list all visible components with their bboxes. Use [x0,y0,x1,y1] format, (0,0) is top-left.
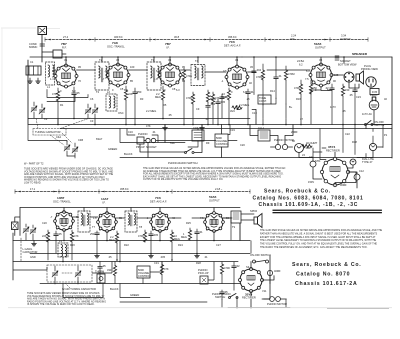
svg-text:C20: C20 [240,143,245,147]
svg-text:C4B: C4B [78,138,83,142]
svg-text:R22: R22 [124,243,129,247]
wire phono drop [140,143,185,158]
capacitor C8 [246,89,254,125]
svg-text:SOCKET: SOCKET [340,59,351,63]
resistor R9 [309,80,317,124]
svg-text:CONT.: CONT. [259,99,267,103]
wire right rail [391,57,393,158]
phono-radio switch S2 [168,149,198,166]
speaker 2 [254,214,262,228]
svg-text:47K: 47K [215,96,220,100]
on-off switch S1 [365,120,385,127]
trimmer capacitor C21 [30,225,36,240]
junction dots [57,56,356,125]
svg-text:SPEAKER: SPEAKER [352,52,368,56]
svg-text:460 KC: 460 KC [114,35,123,39]
svg-text:7A8: 7A8 [112,41,118,45]
speaker socket bottom view [338,59,357,82]
svg-text:C22: C22 [345,132,350,136]
capacitor C22 [54,231,62,240]
svg-text:47K: 47K [146,124,151,128]
svg-text:PHONO-RADIO SWITCH: PHONO-RADIO SWITCH [168,161,198,165]
capacitor C32 [98,262,106,284]
antenna terminal [38,27,47,35]
volume control R26 [137,266,151,278]
trimmer capacitor C3 [39,104,45,118]
svg-text:V3: V3 [168,58,172,62]
capacitor C24 [149,231,159,240]
svg-text:V11: V11 [262,289,267,293]
svg-text:470K: 470K [186,74,192,78]
svg-text:455 KC: 455 KC [120,187,129,191]
ground (strip) [36,78,41,83]
svg-text:TYPE 47: TYPE 47 [362,160,373,164]
resistor R22 [109,231,119,260]
resistor R3 [155,86,165,119]
capacitor C6 [206,102,216,124]
svg-text:6.3: 6.3 [243,90,247,94]
tube V7 14B7 [54,211,75,232]
tuning capacitor label [33,118,90,135]
svg-text:Sears, Roebuck & Co.: Sears, Roebuck & Co. [292,262,362,268]
gang trimmer C17 [72,143,78,156]
dashed leaders gang [50,133,72,145]
svg-text:RATHER THAN AN ABSOLUTE VALUE.: RATHER THAN AN ABSOLUTE VALUE. A SIGNAL … [260,232,378,235]
svg-text:THE GAIN PER STAGE VALUES AS N: THE GAIN PER STAGE VALUES AS NOTED ABOVE… [260,229,382,232]
svg-text:.05: .05 [342,109,346,113]
svg-text:53A: 53A [170,141,175,145]
svg-text:2.18 ~: 2.18 ~ [215,187,223,191]
svg-text:6SA7: 6SA7 [96,137,103,141]
svg-text:OSC.-TRANSL.: OSC.-TRANSL. [53,200,71,204]
svg-text:7C6: 7C6 [229,40,235,44]
svg-text:27.4: 27.4 [63,35,69,39]
wire lower area 2 [63,278,286,308]
svg-text:470K: 470K [186,96,192,100]
svg-text:.05: .05 [76,91,80,95]
svg-text:RADIO POSITION AND LINE VOLTAG: RADIO POSITION AND LINE VOLTAGE AT 117 V… [27,300,106,303]
svg-text:R16: R16 [296,97,301,101]
gang capacitor label [21,238,38,262]
note paragraph bottom left [27,292,106,306]
capacitor C10 [349,84,357,125]
wire c18 [188,128,198,147]
svg-text:.005: .005 [160,255,166,259]
component value labels scattered [47,85,387,121]
svg-text:PIN-UP: PIN-UP [136,145,145,149]
antenna series capacitor C1 [29,42,45,49]
svg-text:.005: .005 [153,233,159,237]
svg-text:THE VOLUME CONTROL FULLY ON. A: THE VOLUME CONTROL FULLY ON. AND THAT AT… [260,243,377,246]
svg-text:VOLTAGE READINGS SHOWN AT SOCK: VOLTAGE READINGS SHOWN AT SOCKET PRONGS … [27,295,105,298]
svg-text:ON-OFF SWITCH: ON-OFF SWITCH [250,253,271,257]
gang trimmer C16 [64,141,70,156]
svg-text:EACH INPUT SHALL BE SET AT THE: EACH INPUT SHALL BE SET AT THE LOWEST LE… [143,175,281,178]
svg-text:S3: S3 [246,265,250,269]
svg-text:OUTPUT OF 50 MILLIWATTS WITH T: OUTPUT OF 50 MILLIWATTS WITH THE VOLUME … [143,178,223,181]
svg-text:CONTROL: CONTROL [138,274,151,278]
svg-text:.02: .02 [205,117,209,121]
svg-text:Chassis 101.617-2A: Chassis 101.617-2A [295,281,358,287]
svg-text:250: 250 [137,90,142,94]
tuning gang section 2 [92,104,98,118]
field coil box [370,89,379,95]
wire bottom of rectifier [335,172,356,185]
svg-text:VOLTAGE READINGS SHOWN AT SOCK: VOLTAGE READINGS SHOWN AT SOCKET PRONGS … [24,170,114,173]
tube V9 7C6 [150,212,171,233]
tube V3 7B7 IF [158,63,182,87]
svg-text:470M: 470M [288,72,295,76]
svg-text:BOTTOM VIEW: BOTTOM VIEW [338,63,357,67]
svg-text:.05: .05 [224,95,228,99]
svg-text:OUTPUT: OUTPUT [315,46,326,50]
svg-text:THE LOWEST LEVEL NECESSARY TO: THE LOWEST LEVEL NECESSARY TO MAINTAIN A… [260,239,376,242]
svg-text:-7.5: -7.5 [104,69,109,73]
svg-text:RECTIFIER: RECTIFIER [242,296,256,300]
ground G8 [195,254,200,258]
svg-text:DET.-AVC-A.F.: DET.-AVC-A.F. [150,200,167,204]
oscillator coil L2 [106,90,117,111]
svg-text:150: 150 [345,88,350,92]
resistor R27 [220,262,230,284]
IF transformer T7 [78,211,90,232]
dial lamp I1 [362,143,377,164]
wire mid-lower connections [144,57,256,158]
svg-text:.05: .05 [349,93,353,97]
output transformer T9 [231,211,241,223]
resistor R25 [181,228,192,240]
wire loop leads [13,208,20,281]
svg-text:GREEN: GREEN [108,147,117,151]
wire lower rail [120,157,392,159]
svg-text:THE GAIN PER STAGE VALUES AS N: THE GAIN PER STAGE VALUES AS NOTED ABOVE… [143,167,286,170]
svg-text:.02: .02 [236,264,240,268]
svg-text:AND ARE TAKEN WITH NO SIGNAL.: AND ARE TAKEN WITH NO SIGNAL. WITH RADIO… [27,298,105,301]
dimension line (stage gain) [45,38,368,42]
svg-text:P1: P1 [384,133,388,137]
wire right rail bottom [262,256,270,299]
resistor R30 [160,262,168,284]
svg-text:20MF: 20MF [291,130,298,134]
svg-text:OSC.-TRANSL.: OSC.-TRANSL. [107,45,125,49]
svg-text:STD.: STD. [315,159,321,163]
svg-text:1.8: 1.8 [93,216,97,220]
wire gang connections [28,125,75,159]
electrolytic C12 [354,169,364,180]
resistor R8 [294,80,303,124]
svg-text:.05: .05 [224,290,228,294]
pilot lamp I2 [350,159,356,165]
svg-text:22K: 22K [42,234,47,238]
svg-text:PHONO MOTOR: PHONO MOTOR [267,302,287,306]
capacitor C4 [72,87,80,119]
wire tone area [263,98,286,118]
pin voltage labels V1 [50,77,81,93]
svg-text:BLACK: BLACK [124,152,133,156]
junction dots top [65,56,238,58]
svg-text:MEG: MEG [181,235,187,239]
svg-text:B+: B+ [289,105,293,109]
resistor R10 [341,84,349,124]
phono motor plug [270,138,294,150]
svg-text:30.8: 30.8 [174,35,180,39]
svg-text:50A5: 50A5 [314,42,322,46]
svg-text:C6: C6 [90,97,94,101]
wire AVC bus [28,118,250,120]
IF transformer T2 [95,58,109,90]
thermal fuse [95,270,105,284]
svg-text:117V: 117V [330,105,336,109]
electrolytic C11 [309,155,316,167]
svg-text:C12: C12 [359,169,364,173]
resistor R15 [284,66,294,104]
svg-text:.05: .05 [58,232,62,236]
IF transformer T3 [147,58,161,90]
loop antenna terminal [12,222,19,230]
svg-text:R3: R3 [140,97,144,101]
svg-text:R14: R14 [270,89,275,93]
trimmer capacitor C20 [23,224,29,240]
svg-text:C2: C2 [44,117,48,121]
svg-text:THERM: THERM [95,270,104,274]
RF coil L1 [46,62,55,85]
svg-text:OUTPUT: OUTPUT [340,37,351,41]
svg-text:DET.-AVC-A.F.: DET.-AVC-A.F. [224,44,241,48]
rectifier tube V6 35Y4 [320,145,349,187]
svg-text:7C6: 7C6 [155,196,161,200]
capacitor C25 [195,229,203,240]
double rule [273,210,382,214]
svg-text:7B7: 7B7 [165,42,171,46]
output transformer choke [297,56,339,67]
svg-text:7.5: 7.5 [305,77,309,81]
svg-text:400 ~: 400 ~ [290,37,297,41]
wire rectifier connections 2 [251,262,274,308]
osc coil L3 [58,239,68,257]
band switch box [53,50,62,58]
capacitor C7 [216,99,226,125]
svg-text:22K: 22K [128,92,133,96]
wire speaker leads 2 [223,214,254,220]
svg-text:C23: C23 [356,95,361,99]
svg-text:470K: 470K [224,266,230,270]
phono-radio switch S4 [212,292,238,299]
svg-text:14A7: 14A7 [101,197,109,201]
tube V5 50A5 output [309,63,333,87]
svg-text:330: 330 [107,268,112,272]
svg-text:SWITCH: SWITCH [215,295,225,299]
wire B- bus [28,124,392,126]
svg-text:SPKR: SPKR [250,209,257,213]
svg-text:THE RADIO THE RESPONSES OF ALI: THE RADIO THE RESPONSES OF ALIGNMENT, ET… [260,246,368,249]
svg-text:6.3: 6.3 [124,88,128,92]
svg-text:Catalog No. 8070: Catalog No. 8070 [296,272,350,278]
wire buses bottom schematic [13,240,250,242]
svg-text:GREEN: GREEN [130,293,139,297]
ground G3 [163,125,168,130]
svg-text:150V: 150V [308,180,314,184]
ground (antenna) [28,78,33,83]
ballast lamp B1 [292,139,304,153]
resistor R14 [256,64,265,105]
resistor R4 [182,68,192,124]
capacitor C18 box [192,126,204,141]
svg-text:LOW TO READ.: LOW TO READ. [24,182,42,185]
svg-text:C20: C20 [42,221,47,225]
tuning capacitor 2 dashed box [47,265,96,291]
page scan edge left [1,28,3,150]
rectifier tube V11 35Y4 [239,268,264,300]
svg-text:V5: V5 [319,58,323,62]
svg-text:40 OHMT: 40 OHMT [306,141,318,145]
terminal strip [26,66,41,75]
wire antenna lead [41,35,43,63]
capacitor C28 [232,262,240,284]
svg-text:FOR ALL MEASUREMENTS EXCEPT FO: FOR ALL MEASUREMENTS EXCEPT FOR THE ANTE… [143,173,284,176]
tube V1 7B7 RF [54,64,78,88]
pin voltage labels V3 [154,77,185,92]
resistor R11 40 ohm [302,141,326,148]
pin voltage labels V4 [221,79,252,94]
junction dots bottom [47,240,252,309]
svg-text:EXCEPT FOR THE ANTENNA WHERE A: EXCEPT FOR THE ANTENNA WHERE A 30% INPUT… [260,236,376,239]
wire plate supply rail [30,56,392,58]
svg-text:V4: V4 [235,58,239,62]
svg-text:TUBE SOCKETS ARE VIEWED FROM U: TUBE SOCKETS ARE VIEWED FROM UNDER SIDE … [27,292,100,295]
svg-text:TUBE SOCKETS ARE VIEWED FROM U: TUBE SOCKETS ARE VIEWED FROM UNDER SIDE … [24,168,113,171]
svg-text:.01: .01 [204,255,208,259]
svg-text:R9: R9 [206,141,210,145]
svg-text:AVC: AVC [230,109,235,113]
wire plate drops bottom [64,208,214,214]
filter choke box [258,126,270,141]
svg-text:456 KC: 456 KC [228,35,237,39]
svg-text:C16: C16 [128,130,133,134]
svg-text:C4A: C4A [56,135,61,139]
svg-text:FIELD: FIELD [370,93,377,97]
svg-text:C13: C13 [252,111,257,115]
ground G6 [95,254,100,258]
svg-text:R20: R20 [70,243,75,247]
svg-text:30MF: 30MF [340,183,347,187]
svg-text:PHONO MOTOR: PHONO MOTOR [274,138,294,142]
svg-text:.25: .25 [246,97,250,101]
resistor R16 [211,92,219,118]
svg-text:.05: .05 [108,255,112,259]
phono pickup [198,268,209,284]
wire plate drops [66,57,344,66]
tuning gang section 1 [85,104,91,118]
svg-text:R.F.: R.F. [62,46,67,50]
phono socket [136,132,157,149]
trimmer capacitor C2 [31,102,37,118]
capacitor C5 [133,88,142,125]
svg-text:PHONO: PHONO [138,132,148,136]
svg-text:PRONG VIEW: PRONG VIEW [361,67,378,71]
svg-text:24 BA: 24 BA [297,59,304,63]
svg-text:40MF: 40MF [274,269,281,273]
resistor R23 [138,230,147,242]
svg-text:MEG: MEG [109,238,115,242]
svg-text:50A5: 50A5 [209,195,217,199]
svg-text:117V AC: 117V AC [362,112,372,116]
svg-text:OSC: OSC [118,111,124,115]
svg-text:.01: .01 [250,90,254,94]
resistor R20 [42,230,50,260]
note paragraph right [143,167,286,181]
svg-text:W-100 TUNING CAPACITOR: W-100 TUNING CAPACITOR [62,287,96,291]
svg-text:35Y4: 35Y4 [328,145,336,149]
capacitor C14 [274,57,282,99]
svg-text:Sears, Roebuck & Co.: Sears, Roebuck & Co. [264,189,331,195]
svg-text:1.8: 1.8 [154,77,158,81]
svg-text:6.3: 6.3 [52,69,56,73]
svg-text:CH-1: CH-1 [258,126,265,130]
wire verticals bottom [56,217,240,262]
svg-text:R24: R24 [178,243,183,247]
svg-text:C1: C1 [30,60,34,64]
svg-text:GND: GND [30,255,36,259]
wire top rail bottom schematic [20,207,240,209]
ground G7 [149,254,154,258]
svg-text:MEG: MEG [155,95,161,99]
svg-text:C18: C18 [193,126,198,130]
svg-text:47K: 47K [74,234,79,238]
svg-text:W - PART OF T2: W - PART OF T2 [24,162,44,166]
svg-text:2.24: 2.24 [291,34,297,38]
pin voltage labels bottom row [30,209,267,297]
svg-text:.005: .005 [220,100,226,104]
ground G4 [200,125,205,130]
wire heater bus [60,128,392,130]
svg-text:C27: C27 [216,243,221,247]
svg-text:CONTROL: CONTROL [216,142,229,146]
tube V8 14A7 [97,212,118,233]
resistor R24 [170,230,180,260]
svg-text:Chassis 101.609-1A, -1B, -2, -: Chassis 101.609-1A, -1B, -2, -3C [259,202,359,208]
wire bottom extras [13,223,251,291]
svg-text:47K: 47K [52,92,57,96]
text block chassis 101.609 [253,189,364,209]
svg-text:2.2 MEG: 2.2 MEG [146,109,156,113]
capacitor C9 [325,84,334,125]
svg-text:RECTIFIER: RECTIFIER [326,149,340,153]
svg-text:6.3: 6.3 [156,69,160,73]
svg-text:OUTPUT: OUTPUT [209,199,220,203]
wire rect area extra [313,125,383,160]
IF transformer T8 [125,211,137,232]
svg-text:AN AVERAGE STAGE RATHER THAN A: AN AVERAGE STAGE RATHER THAN AN ABSOLUTE… [143,170,281,173]
svg-text:PICK-UP: PICK-UP [198,271,209,275]
page streak [8,306,392,309]
wire mid band extra [120,125,230,143]
wire grid row [54,70,310,72]
svg-text:V1: V1 [64,58,68,62]
ground G5 [32,241,37,246]
text block chassis 101.617 [292,262,362,287]
svg-text:WHERE NO READING IS SHOWN THE: WHERE NO READING IS SHOWN THE VOLTAGE IS… [24,179,109,182]
svg-text:6.3: 6.3 [176,88,180,92]
resistor R7 [221,88,231,124]
svg-text:AND ARE TAKEN WITH NO SIGNAL,: AND ARE TAKEN WITH NO SIGNAL, WITH RADIO… [24,173,113,176]
svg-text:600MC: 600MC [29,45,37,49]
resistor R12 2.2MEG [232,103,256,110]
svg-text:I.F.: I.F. [102,201,106,205]
capacitor C13 tone [252,57,262,95]
wire sub rails [47,90,88,102]
svg-text:470M: 470M [256,75,263,79]
wire [42,52,66,54]
